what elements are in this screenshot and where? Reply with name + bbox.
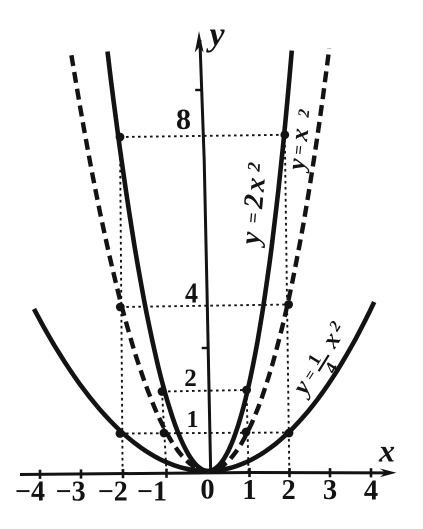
svg-text:−4: −4 — [15, 477, 45, 508]
svg-text:2: 2 — [184, 365, 197, 392]
svg-text:x: x — [378, 433, 395, 469]
svg-text:2: 2 — [238, 193, 270, 211]
svg-text:2: 2 — [243, 161, 264, 173]
svg-text:4: 4 — [185, 278, 198, 310]
svg-text:=: = — [301, 367, 320, 384]
svg-text:=: = — [243, 212, 265, 225]
svg-text:1: 1 — [242, 475, 256, 506]
svg-text:8: 8 — [176, 103, 191, 136]
svg-text:y: y — [235, 230, 267, 249]
svg-text:−3: −3 — [56, 477, 86, 508]
svg-text:x: x — [286, 127, 314, 143]
svg-text:y: y — [205, 17, 225, 54]
svg-text:−2: −2 — [98, 477, 128, 508]
svg-text:x: x — [240, 176, 272, 194]
svg-text:4: 4 — [320, 359, 342, 377]
svg-text:3: 3 — [323, 475, 337, 506]
svg-text:2: 2 — [296, 108, 314, 119]
svg-text:=: = — [289, 144, 309, 156]
svg-text:−1: −1 — [137, 477, 167, 508]
svg-text:0: 0 — [200, 475, 214, 506]
svg-text:4: 4 — [364, 476, 378, 507]
svg-text:1: 1 — [187, 407, 199, 433]
svg-text:2: 2 — [281, 475, 295, 506]
svg-text:y: y — [283, 156, 311, 174]
